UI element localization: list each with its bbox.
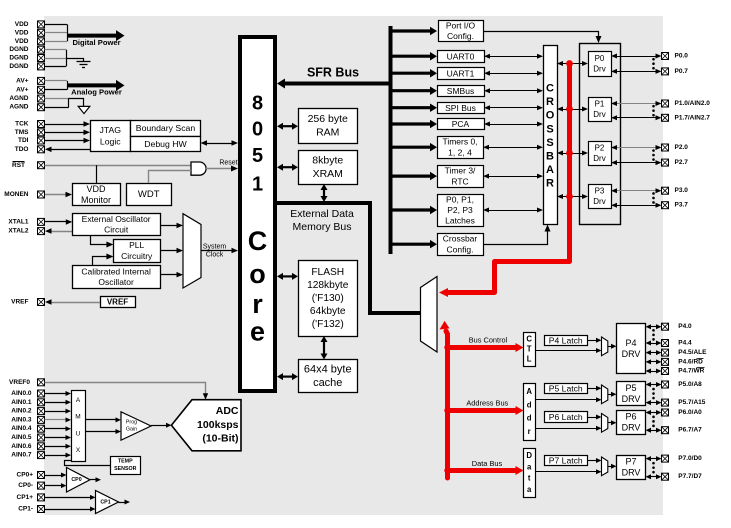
pin AIN0.2 xyxy=(38,408,45,415)
svg-text:DGND: DGND xyxy=(9,63,28,70)
wire crossbar to P0 Drv xyxy=(562,63,583,65)
svg-text:External Oscillator: External Oscillator xyxy=(82,214,151,224)
wire Addr to P5 mux xyxy=(535,399,597,401)
red bus junction at crossbar arrow y=153 xyxy=(566,150,573,157)
svg-text:Logic: Logic xyxy=(100,137,121,147)
pin P0.7 xyxy=(662,68,669,75)
wire RST to AND gate xyxy=(45,165,192,167)
svg-text:JTAG: JTAG xyxy=(99,125,121,135)
mux P4 xyxy=(602,337,608,356)
block P1 Drv xyxy=(589,98,612,122)
wire Data to P7 mux xyxy=(535,471,597,473)
block JTAG Logic xyxy=(91,121,131,152)
wire P0 Drv to pin P0.7 xyxy=(616,71,657,73)
svg-text:AV+: AV+ xyxy=(16,86,29,93)
ellipsis dots P5 xyxy=(652,388,655,391)
wire CP1- xyxy=(45,509,92,511)
pin AV+2 xyxy=(38,86,45,93)
pin VDD2 xyxy=(38,29,45,36)
svg-text:P4: P4 xyxy=(625,338,636,348)
wire P1 Drv to pin P1.0/AIN2.0 xyxy=(616,103,657,105)
svg-text:VDD: VDD xyxy=(15,29,29,36)
pin AGND2 xyxy=(38,104,45,111)
wire AIN0.7 xyxy=(45,455,67,457)
svg-text:P6 Latch: P6 Latch xyxy=(549,412,583,422)
wire XTAL1 xyxy=(45,221,67,223)
wire AGND2 xyxy=(45,107,69,109)
block ADC xyxy=(171,400,241,451)
block Addr xyxy=(524,384,536,441)
svg-text:256 byte: 256 byte xyxy=(308,113,348,125)
wire mux to P5 DRV xyxy=(608,394,612,396)
wire P6 Latch to mux xyxy=(588,417,598,419)
wire crossbar to P3 Drv xyxy=(562,196,583,198)
svg-text:T: T xyxy=(527,345,532,354)
svg-text:VDD: VDD xyxy=(15,38,29,45)
wire cal osc to clock mux xyxy=(160,274,178,276)
red bus junction at crossbar arrow y=196.5 xyxy=(566,193,573,200)
svg-text:0: 0 xyxy=(252,119,263,141)
wire AGND1 xyxy=(45,98,69,100)
wire TDI xyxy=(45,140,85,142)
block FLASH xyxy=(299,261,358,337)
pin TDI xyxy=(38,137,45,144)
pin AIN0.6 xyxy=(38,443,45,450)
svg-text:RTC: RTC xyxy=(451,177,468,187)
block PLL Circuitry xyxy=(114,240,161,263)
wire AV+ vertical join xyxy=(67,81,69,90)
svg-text:Crossbar: Crossbar xyxy=(443,234,478,244)
mux P6 xyxy=(602,414,608,433)
ground symbol (digital) xyxy=(77,61,91,63)
pin VDD1 xyxy=(38,21,45,28)
svg-text:Address Bus: Address Bus xyxy=(466,399,508,408)
svg-text:P0: P0 xyxy=(595,54,605,63)
svg-text:Calibrated Internal: Calibrated Internal xyxy=(81,266,151,276)
svg-text:RST: RST xyxy=(12,162,25,169)
svg-text:A: A xyxy=(526,387,532,396)
pin P4.7/WR xyxy=(662,368,669,375)
svg-text:100ksps: 100ksps xyxy=(197,419,239,431)
wire Debug HW to core xyxy=(206,143,233,145)
svg-text:M: M xyxy=(75,414,80,421)
svg-text:Memory Bus: Memory Bus xyxy=(293,221,352,233)
svg-text:L: L xyxy=(527,355,532,364)
pin XTAL1 xyxy=(38,218,45,225)
svg-text:VREF: VREF xyxy=(11,299,28,306)
block VREF xyxy=(101,297,136,308)
svg-text:AIN0.0: AIN0.0 xyxy=(11,390,32,397)
block 8kbyte XRAM xyxy=(299,151,358,185)
svg-text:AGND: AGND xyxy=(9,95,28,102)
svg-text:P4.7/WR: P4.7/WR xyxy=(678,368,704,375)
wire DGND3 to join xyxy=(45,66,67,68)
svg-text:D: D xyxy=(526,451,532,460)
svg-text:PLL: PLL xyxy=(129,240,144,250)
block P2 Drv xyxy=(589,142,612,166)
pin P4.5/ALE xyxy=(662,349,669,356)
wire ext osc to clock mux xyxy=(160,225,178,227)
svg-text:CP0+: CP0+ xyxy=(17,472,34,479)
svg-text:R: R xyxy=(546,178,554,190)
block External Oscillator Circuit xyxy=(73,214,161,236)
ellipsis dots P6 xyxy=(652,416,655,419)
pin AIN0.0 xyxy=(38,390,45,397)
wire AMUX to prog gain 1 xyxy=(85,419,117,421)
port drivers container box xyxy=(580,44,621,225)
wire FLASH-cache xyxy=(323,341,325,355)
ellipsis dots P7 xyxy=(652,462,655,465)
svg-text:CP0: CP0 xyxy=(71,477,81,483)
svg-text:AIN0.7: AIN0.7 xyxy=(11,452,32,459)
svg-text:P7.7/D7: P7.7/D7 xyxy=(678,473,702,480)
wire to analog ground xyxy=(69,99,84,107)
overline WR xyxy=(697,367,705,369)
wire Crossbar Config to crossbar xyxy=(483,230,548,245)
svg-text:XRAM: XRAM xyxy=(313,168,343,180)
pin CP0+ xyxy=(38,472,45,479)
svg-text:('F130): ('F130) xyxy=(312,293,344,304)
block Timers 0 1 2 4 xyxy=(438,137,484,159)
svg-text:1, 2, 4: 1, 2, 4 xyxy=(448,148,472,158)
svg-text:P4.6/RD: P4.6/RD xyxy=(678,358,703,365)
wire MONEN xyxy=(45,194,67,196)
svg-text:P5 Latch: P5 Latch xyxy=(549,383,583,393)
wire Reset to core xyxy=(206,168,233,170)
svg-text:a: a xyxy=(527,462,532,471)
red bus junction at crossbar arrow y=109 xyxy=(566,106,573,113)
pin P4.0 xyxy=(662,323,669,330)
red external bus (vertical) xyxy=(446,331,448,478)
block AMUX xyxy=(72,391,86,462)
pin P7.0/D0 xyxy=(662,455,669,462)
red branch Address Bus xyxy=(448,408,517,413)
block WDT xyxy=(127,184,172,206)
svg-text:P6.0/A0: P6.0/A0 xyxy=(678,409,702,416)
svg-text:WDT: WDT xyxy=(138,189,160,200)
svg-text:C: C xyxy=(546,83,554,95)
block P0 Drv xyxy=(589,52,612,77)
ellipsis dots P3 xyxy=(652,192,655,195)
bus stub to UART1 xyxy=(391,72,431,75)
wire crossbar to P2 Drv xyxy=(562,153,583,155)
memory bus mux xyxy=(421,277,438,353)
wire VDD3 to join xyxy=(45,41,68,43)
block Calibrated Internal Oscillator xyxy=(73,266,161,289)
svg-text:UART0: UART0 xyxy=(447,51,475,61)
pin CP1- xyxy=(38,506,45,513)
red port bus (crossbar side) xyxy=(447,64,570,293)
svg-text:VDD: VDD xyxy=(15,21,29,28)
SFR bus xyxy=(284,82,391,86)
svg-text:P1: P1 xyxy=(595,99,605,108)
svg-text:d: d xyxy=(527,414,532,423)
svg-text:AGND: AGND xyxy=(9,104,28,111)
comparator CP0 xyxy=(67,468,91,493)
svg-text:Analog Power: Analog Power xyxy=(71,87,122,96)
pin AIN0.7 xyxy=(38,452,45,459)
svg-text:CP1: CP1 xyxy=(100,499,110,505)
block P0-P3 latches xyxy=(438,195,484,227)
pin AIN0.5 xyxy=(38,434,45,441)
pin P4.6/RD xyxy=(662,358,669,365)
svg-text:P1.0/AIN2.0: P1.0/AIN2.0 xyxy=(675,100,711,107)
svg-text:System: System xyxy=(203,244,227,251)
wire prog gain to ADC xyxy=(151,425,167,427)
wire P4 DRV to pin P4.7/WR xyxy=(650,371,657,373)
svg-text:(10-Bit): (10-Bit) xyxy=(202,433,238,445)
svg-text:RAM: RAM xyxy=(316,127,339,139)
svg-text:Data Bus: Data Bus xyxy=(472,459,503,468)
wire AV+1 xyxy=(45,80,68,82)
comparator CP1 xyxy=(96,491,119,514)
wire DGND1 to join xyxy=(45,49,67,51)
svg-text:S: S xyxy=(546,137,553,149)
svg-text:P0.0: P0.0 xyxy=(675,53,689,60)
svg-text:AIN0.3: AIN0.3 xyxy=(11,416,32,423)
pin P4.4 xyxy=(662,340,669,347)
ellipsis dots P4 xyxy=(652,329,655,332)
svg-text:XTAL2: XTAL2 xyxy=(8,228,28,235)
block VDD Monitor xyxy=(73,184,121,206)
svg-text:Config.: Config. xyxy=(447,31,474,41)
svg-text:C: C xyxy=(248,226,268,256)
svg-text:AIN0.1: AIN0.1 xyxy=(11,399,32,406)
block Data xyxy=(524,449,536,498)
block P4 Latch xyxy=(545,336,588,346)
pin AIN0.1 xyxy=(38,399,45,406)
pin CP0- xyxy=(38,482,45,489)
svg-text:P2: P2 xyxy=(595,143,605,152)
wire system clock to core xyxy=(201,250,233,252)
svg-text:Oscillator: Oscillator xyxy=(98,277,134,287)
svg-text:ADC: ADC xyxy=(216,405,239,417)
pin XTAL2 xyxy=(38,228,45,235)
svg-text:DRV: DRV xyxy=(622,423,641,433)
red bus junction at crossbar arrow y=63.5 xyxy=(566,60,573,67)
svg-text:O: O xyxy=(546,110,555,122)
block CTL xyxy=(524,333,536,367)
svg-text:P4.0: P4.0 xyxy=(678,323,692,330)
wire TCK xyxy=(45,124,85,126)
svg-text:R: R xyxy=(546,96,554,108)
pin P0.0 xyxy=(662,53,669,60)
block P3 Drv xyxy=(589,185,612,209)
overline RD xyxy=(697,358,704,360)
svg-text:P0, P1,: P0, P1, xyxy=(446,194,474,204)
svg-text:Port I/O: Port I/O xyxy=(446,20,476,30)
wire P7 DRV to pin P7.0/D0 xyxy=(650,458,657,460)
pin P1.0/AIN2.0 xyxy=(662,100,669,107)
svg-text:r: r xyxy=(252,289,263,319)
svg-text:PCA: PCA xyxy=(452,119,470,129)
pin VREF0 xyxy=(38,379,45,386)
svg-text:Monitor: Monitor xyxy=(81,195,111,205)
bus stub to PCA xyxy=(391,122,431,125)
wire core-FLASH xyxy=(282,275,293,277)
wire AIN0.0 xyxy=(45,393,67,395)
block 256 byte RAM xyxy=(299,109,358,144)
prog gain amplifier xyxy=(121,412,151,440)
wire UART1 to crossbar xyxy=(489,73,538,75)
pin AIN0.3 xyxy=(38,416,45,423)
pin P3.0 xyxy=(662,187,669,194)
svg-text:UART1: UART1 xyxy=(447,68,475,78)
svg-text:('F132): ('F132) xyxy=(312,319,344,330)
block UART1 xyxy=(438,68,485,80)
block Timer 3 RTC xyxy=(438,166,484,188)
wire P7 DRV to pin P7.7/D7 xyxy=(650,476,657,478)
svg-text:8: 8 xyxy=(252,92,263,114)
svg-text:P4.4: P4.4 xyxy=(678,340,692,347)
wire P5 DRV to pin P5.7/A15 xyxy=(650,402,657,404)
wire SPI Bus to crossbar xyxy=(489,107,538,109)
svg-text:d: d xyxy=(527,400,532,409)
svg-text:o: o xyxy=(249,259,266,289)
svg-text:Timers 0,: Timers 0, xyxy=(442,137,477,147)
wire AGND vertical join xyxy=(68,99,70,108)
bus stub to SMBus xyxy=(391,89,431,92)
svg-text:AIN0.4: AIN0.4 xyxy=(11,425,32,432)
wire P2 Drv to pin P2.0 xyxy=(616,147,657,149)
block 64x4 byte cache xyxy=(299,360,358,393)
block P6 DRV xyxy=(617,411,646,435)
block Boundary Scan xyxy=(131,121,201,137)
wire P4 DRV to pin P4.6/RD xyxy=(650,361,657,363)
svg-text:DGND: DGND xyxy=(9,46,28,53)
block P4 DRV xyxy=(617,324,646,374)
pin P7.7/D7 xyxy=(662,473,669,480)
block Debug HW xyxy=(131,137,201,152)
wire AIN0.3 xyxy=(45,419,67,421)
external data memory bus (thick path) xyxy=(277,203,421,313)
svg-text:VREF: VREF xyxy=(107,298,128,307)
ellipsis dots P0 xyxy=(652,58,655,61)
svg-text:CP1-: CP1- xyxy=(18,506,33,513)
svg-text:CP1+: CP1+ xyxy=(17,494,34,501)
wire VDD vertical join xyxy=(67,24,69,41)
wire P1 Drv to pin P1.7/AIN2.7 xyxy=(616,117,657,119)
svg-text:A: A xyxy=(76,397,81,404)
svg-text:8kbyte: 8kbyte xyxy=(312,155,343,167)
svg-text:A: A xyxy=(546,164,554,176)
wire P4 DRV to pin P4.5/ALE xyxy=(650,352,657,354)
wire CP0 out xyxy=(90,479,97,481)
svg-text:P4.5/ALE: P4.5/ALE xyxy=(678,349,707,356)
wire crossbar to P1 Drv xyxy=(562,109,583,111)
bus stub to SPI Bus xyxy=(391,106,431,109)
wire TMS xyxy=(45,132,85,134)
wire cal osc to PLL xyxy=(93,257,108,266)
wire P6 DRV to pin P6.0/A0 xyxy=(650,412,657,414)
svg-text:VDD: VDD xyxy=(86,184,106,194)
digital power bus arrow xyxy=(67,34,117,38)
mux P7 xyxy=(602,457,608,476)
pin RST xyxy=(38,162,45,169)
svg-text:B: B xyxy=(546,151,554,163)
wire P4 DRV to pin P4.0 xyxy=(650,326,657,328)
svg-text:Reset: Reset xyxy=(219,160,237,167)
svg-text:VREF0: VREF0 xyxy=(9,379,30,386)
wire to digital ground xyxy=(66,59,84,62)
svg-text:Drv: Drv xyxy=(593,197,605,206)
svg-text:Circuit: Circuit xyxy=(104,225,129,235)
wire core-XRAM xyxy=(282,166,293,168)
svg-text:TCK: TCK xyxy=(15,121,29,128)
pin P5.0/A8 xyxy=(662,381,669,388)
svg-text:AV+: AV+ xyxy=(16,77,29,84)
svg-text:SENSOR: SENSOR xyxy=(114,466,137,472)
wire P3 Drv to pin P3.7 xyxy=(616,205,657,207)
wire Addr to P6 mux xyxy=(535,428,597,430)
svg-text:FLASH: FLASH xyxy=(311,267,344,278)
pin P2.7 xyxy=(662,159,669,166)
svg-text:Boundary Scan: Boundary Scan xyxy=(136,123,196,133)
block P7 DRV xyxy=(617,456,646,480)
wire P5 DRV to pin P5.0/A8 xyxy=(650,384,657,386)
bus stub to Crossbar Config. xyxy=(391,243,431,246)
wire Port I/O Config to port drivers xyxy=(483,32,599,39)
pin P3.7 xyxy=(662,202,669,209)
wire AMUX to prog gain 2 xyxy=(85,431,117,433)
ground symbol (analog, triangle) xyxy=(78,106,90,113)
pin VDD3 xyxy=(38,38,45,45)
wire TDO xyxy=(51,149,91,151)
svg-text:t: t xyxy=(528,474,531,483)
pin P2.0 xyxy=(662,144,669,151)
svg-text:r: r xyxy=(528,427,531,436)
wire CP0- xyxy=(45,485,63,487)
pin VREF xyxy=(38,299,45,306)
svg-text:P2.0: P2.0 xyxy=(675,144,689,151)
wire VREF0 to ADC xyxy=(45,383,206,395)
pin P6.0/A0 xyxy=(662,409,669,416)
wire AIN0.4 xyxy=(45,428,67,430)
svg-text:P5.7/A15: P5.7/A15 xyxy=(678,399,705,406)
pin P5.7/A15 xyxy=(662,399,669,406)
wire DGND vertical join xyxy=(66,50,68,67)
svg-text:P6: P6 xyxy=(625,412,636,422)
pin DGND3 xyxy=(38,63,45,70)
svg-text:P2.7: P2.7 xyxy=(675,159,689,166)
svg-text:Bus Control: Bus Control xyxy=(469,336,508,345)
bus stub to Timers 0 1 2 4 xyxy=(391,146,431,149)
wire Timers 0 1 2 4 to crossbar xyxy=(488,147,538,149)
red branch Data Bus xyxy=(448,468,517,473)
pin P6.7/A7 xyxy=(662,427,669,434)
wire AIN0.5 xyxy=(45,437,67,439)
wire mux to P6 DRV xyxy=(608,422,612,424)
svg-text:DGND: DGND xyxy=(9,55,28,62)
wire WDT to AND gate xyxy=(149,171,192,184)
clock mux xyxy=(183,214,201,288)
svg-text:Latches: Latches xyxy=(445,216,475,226)
wire mux to P4 DRV xyxy=(608,346,612,348)
svg-text:U: U xyxy=(76,430,81,437)
svg-text:Clock: Clock xyxy=(206,252,224,259)
svg-text:Prog: Prog xyxy=(126,420,137,426)
svg-text:1: 1 xyxy=(252,174,263,196)
svg-text:P4 Latch: P4 Latch xyxy=(549,335,583,345)
svg-text:Drv: Drv xyxy=(593,110,605,119)
pin AGND1 xyxy=(38,95,45,102)
block TEMP SENSOR xyxy=(111,457,141,475)
block Port I/O Config. xyxy=(439,21,484,42)
svg-text:X: X xyxy=(76,447,81,454)
wire core-RAM xyxy=(282,125,293,127)
svg-text:Digital Power: Digital Power xyxy=(72,38,120,47)
svg-text:AIN0.6: AIN0.6 xyxy=(11,443,32,450)
